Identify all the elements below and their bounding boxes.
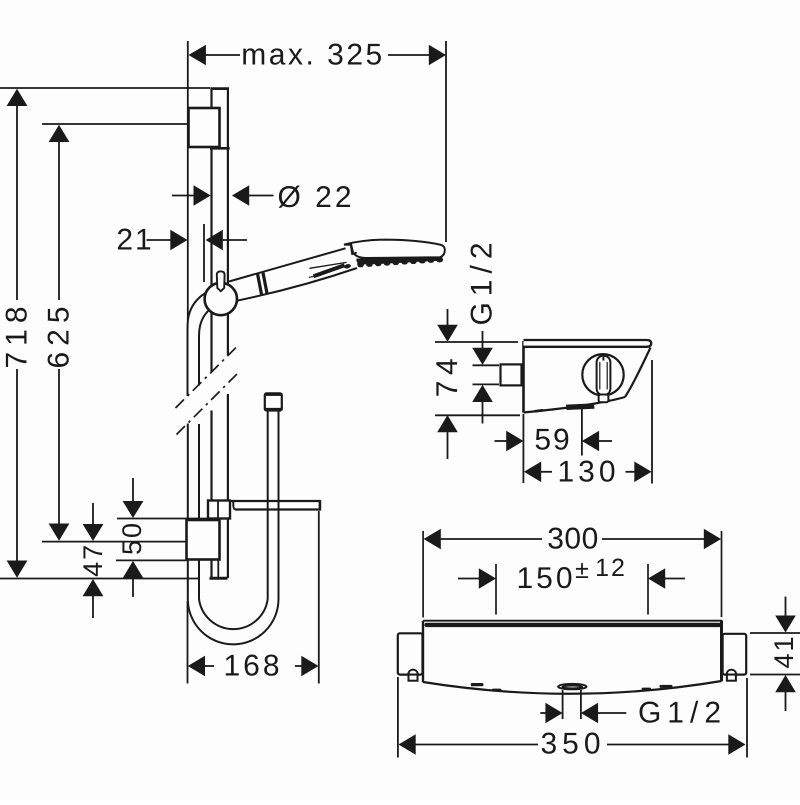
svg-text:718: 718 xyxy=(1,300,34,368)
slider clip lever xyxy=(217,271,225,291)
svg-text:150: 150 xyxy=(516,562,575,595)
dimension G1/2 front extensions xyxy=(562,690,564,719)
svg-text:12: 12 xyxy=(595,554,627,582)
dimension 625 xyxy=(49,125,70,541)
dimension 59 and 130 extensions xyxy=(522,414,524,483)
svg-text:Ø 22: Ø 22 xyxy=(277,181,354,214)
knob grip pill inner lines xyxy=(599,362,601,390)
lower bracket stem line xyxy=(217,560,219,578)
dimension 625 extension bottom xyxy=(42,541,187,543)
bottom slots xyxy=(471,683,673,692)
knob grip pill xyxy=(597,356,611,396)
dimension 50 xyxy=(123,478,144,597)
svg-text:47: 47 xyxy=(78,543,108,577)
right escutcheon xyxy=(723,634,747,675)
knob bottom tab xyxy=(599,395,609,403)
dimension 50 extension bottom xyxy=(116,559,187,561)
temperature knob xyxy=(582,354,623,395)
dimension 168 extension right xyxy=(318,511,320,684)
dimension 21 extension right xyxy=(203,224,205,282)
dimension max. 325 extension line right xyxy=(445,41,447,242)
hand shower body seam xyxy=(310,262,347,268)
hand shower head xyxy=(344,240,445,258)
right escutcheon nut xyxy=(727,670,736,681)
dimension 718 extension bottom xyxy=(0,578,199,580)
svg-text:168: 168 xyxy=(223,650,282,683)
front top thin line xyxy=(423,620,722,622)
thermostat front body xyxy=(423,621,722,694)
top wall bracket xyxy=(189,108,220,147)
svg-text:41: 41 xyxy=(769,634,799,668)
wall bar right edge xyxy=(227,89,229,578)
break mark dash-dot line upper xyxy=(176,346,239,409)
svg-text:max. 325: max. 325 xyxy=(241,39,384,72)
short dash below button xyxy=(309,275,321,277)
dimension max. 325 xyxy=(189,45,447,66)
svg-text:300: 300 xyxy=(547,523,599,556)
svg-text:350: 350 xyxy=(540,728,605,761)
knob grip tick xyxy=(602,356,604,361)
dimension 47 xyxy=(83,503,104,618)
shower hose xyxy=(188,293,279,644)
dimension 130 xyxy=(524,462,652,483)
slide bar clamp of shelf xyxy=(208,501,230,519)
dimension 150 extensions xyxy=(495,564,497,615)
thermostat side body xyxy=(524,341,651,413)
dimension max. 325 extension line left xyxy=(187,41,189,320)
svg-text:±: ± xyxy=(575,556,589,584)
wall bar top end cap xyxy=(210,87,229,90)
dimension 50 extension top xyxy=(117,518,207,520)
dimension 350 extensions xyxy=(397,677,399,758)
dimension 59 xyxy=(495,431,613,452)
side union connector xyxy=(501,364,522,385)
wall bar bottom end cap xyxy=(210,577,228,580)
svg-text:59: 59 xyxy=(534,424,571,457)
hand shower select button xyxy=(314,265,345,276)
svg-text:74: 74 xyxy=(431,353,464,397)
hand shower spray nozzles xyxy=(344,257,444,269)
wall bar collar under top bracket xyxy=(210,147,230,150)
dimension 150 plus/minus 12 xyxy=(458,568,685,589)
outlet spigot xyxy=(558,684,586,689)
left escutcheon xyxy=(398,633,423,674)
dimension 21 xyxy=(147,230,248,251)
svg-text:G1/2: G1/2 xyxy=(466,236,499,325)
svg-text:21: 21 xyxy=(116,224,153,257)
dimension 300 xyxy=(424,529,721,550)
dimension 350 xyxy=(399,734,746,755)
svg-text:G1/2: G1/2 xyxy=(638,697,727,730)
slider holder ball xyxy=(205,283,237,315)
wall bar left edge xyxy=(210,89,212,578)
dimension 168 xyxy=(188,656,319,677)
dimension 718 extension top xyxy=(0,87,210,89)
dimension diameter 22 xyxy=(172,185,274,206)
hand shower handle ring joint xyxy=(257,273,261,294)
dimension G1/2 side arrows xyxy=(472,331,499,424)
svg-text:625: 625 xyxy=(43,300,76,368)
black slot on bottom edge xyxy=(566,403,595,410)
shower shelf (soap dish) xyxy=(230,500,321,511)
left escutcheon nut xyxy=(408,670,417,681)
dimension 168 extension left xyxy=(187,601,189,684)
small dash on bottom edge xyxy=(535,410,544,411)
dimension G1/2 front xyxy=(540,703,626,724)
dimension 41 extensions xyxy=(750,632,800,634)
hose conical nut xyxy=(265,393,282,410)
dimension 625 extension top xyxy=(42,123,189,125)
break mark dash-dot line lower xyxy=(177,372,240,435)
bottom wall bracket xyxy=(187,520,220,560)
dimension 718 xyxy=(7,89,28,578)
front top dark band xyxy=(425,623,722,627)
svg-text:130: 130 xyxy=(557,455,619,488)
hand shower handle xyxy=(229,248,360,300)
dimension 41 xyxy=(775,597,796,712)
thermostat side top band xyxy=(524,340,652,347)
svg-text:50: 50 xyxy=(117,521,147,555)
dimension 300 extensions xyxy=(422,531,424,618)
dimension 74 xyxy=(435,309,520,459)
